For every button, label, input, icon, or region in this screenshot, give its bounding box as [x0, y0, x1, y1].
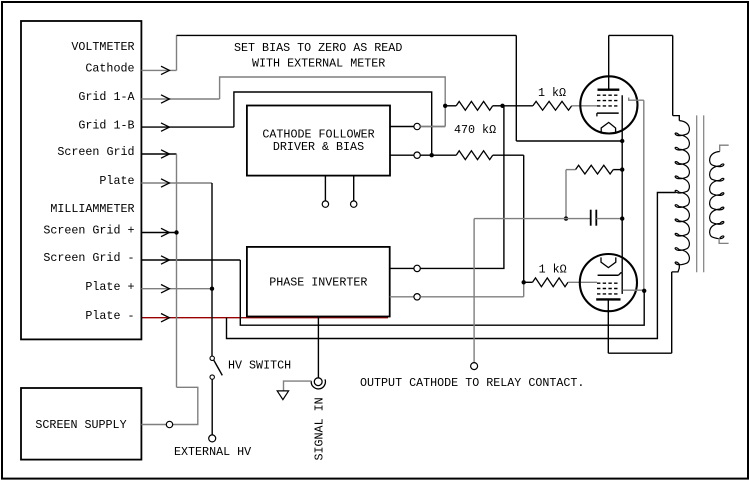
wire node riser [444, 106, 446, 127]
junction R5/C1 [564, 216, 568, 220]
wire cathode to tube V1 [516, 140, 622, 142]
svg-text:Cathode: Cathode [85, 62, 134, 76]
svg-text:470 kΩ: 470 kΩ [454, 123, 496, 137]
transformer T1 primary top lead [673, 116, 680, 121]
wire R5 right lead [613, 169, 622, 171]
wire R1 right lead [493, 105, 503, 107]
svg-text:SIGNAL IN: SIGNAL IN [312, 397, 326, 460]
resistor R5 cathode resistor V1 [576, 165, 614, 174]
wire inverter out2 row [420, 296, 523, 298]
terminal driver bottom 2 [351, 201, 357, 207]
wire C1 right lead [596, 218, 622, 220]
wire output cathode run [474, 218, 590, 220]
wire driver output 2 [390, 154, 414, 156]
transformer T1 primary bottom lead [672, 264, 680, 272]
wire screen grid drop [176, 154, 178, 387]
wire Grid 1-A row [141, 98, 219, 100]
arrowhead Plate + [161, 285, 169, 293]
wire plate drop to HV switch [211, 183, 213, 356]
svg-text:Screen Grid -: Screen Grid - [43, 251, 134, 265]
transformer T1 secondary top lead [720, 145, 729, 151]
svg-text:1 kΩ: 1 kΩ [538, 86, 566, 100]
svg-text:VOLTMETER: VOLTMETER [71, 40, 134, 54]
svg-text:WITH EXTERNAL METER: WITH EXTERNAL METER [252, 57, 385, 71]
wire V1 plate riser [608, 35, 610, 89]
wire V1 plate top run [609, 34, 673, 36]
svg-text:Grid 1-A: Grid 1-A [78, 90, 135, 104]
connector J1 SIGNAL IN jack [314, 378, 322, 386]
V1 grid lead right [629, 98, 644, 101]
junction plate + [210, 287, 214, 291]
wire R4 left lead [524, 281, 533, 283]
V2 heater [601, 257, 616, 267]
svg-text:Grid 1-B: Grid 1-B [78, 118, 134, 132]
wire drop to lower 1k node [523, 155, 525, 282]
transformer T1 secondary winding [710, 152, 724, 239]
V2 grid (dashed) [597, 282, 619, 284]
svg-text:DRIVER & BIAS: DRIVER & BIAS [273, 140, 364, 154]
wire out2 riser [523, 285, 525, 297]
V1 plate [598, 88, 620, 90]
wire node B to R2 [503, 105, 533, 107]
wire inverter out1 riser to node B [420, 106, 504, 269]
terminal screen supply output [166, 421, 172, 427]
wire Cathode row [141, 69, 176, 71]
wire jack shell to ground arrow [284, 381, 312, 391]
svg-text:MILLIAMMETER: MILLIAMMETER [50, 202, 134, 216]
V1 grid (dashed) [597, 94, 617, 96]
wire Plate row [141, 182, 212, 184]
svg-text:PHASE INVERTER: PHASE INVERTER [269, 275, 367, 289]
arrowhead Grid 1-A [161, 95, 169, 103]
capacitor C1 [590, 210, 592, 226]
svg-text:OUTPUT CATHODE TO RELAY CONTAC: OUTPUT CATHODE TO RELAY CONTACT. [360, 376, 584, 390]
wire V1 cathode drop [621, 95, 623, 273]
transformer T1 primary winding [675, 121, 689, 265]
wire driver bottom terminal 2 [353, 176, 355, 201]
wire output2 row [420, 154, 456, 156]
resistor R1 (left of 1k, upper row) [456, 101, 493, 110]
meter selector box (VOLTMETER / MILLIAMMETER) [21, 21, 141, 339]
svg-text:1 kΩ: 1 kΩ [539, 263, 567, 277]
terminal driver output 2 [414, 152, 420, 158]
svg-text:HV SWITCH: HV SWITCH [228, 358, 291, 372]
svg-text:Plate: Plate [99, 174, 134, 188]
wire to screen supply [141, 387, 197, 424]
SCREEN SUPPLY box [21, 388, 141, 460]
ground arrow (signal ground) [277, 391, 288, 400]
wire Plate- (red) from meter box to phase inverter corner [141, 317, 388, 319]
PHASE INVERTER box [247, 247, 390, 317]
wire R4 to V2 grid [568, 281, 597, 283]
junction cathode/meter [620, 139, 624, 143]
CATHODE FOLLOWER DRIVER & BIAS box [247, 106, 390, 176]
svg-text:Screen Grid +: Screen Grid + [43, 224, 134, 238]
vacuum tube V1 envelope [580, 76, 637, 133]
terminal output cathode [471, 363, 478, 370]
arrowhead Plate [161, 179, 169, 187]
terminal driver bottom 1 [322, 201, 328, 207]
wire V2 cathode stub [621, 273, 623, 294]
arrowhead Screen Grid + [161, 228, 169, 236]
wire output1 to node [420, 126, 445, 128]
terminal inverter output 1 [414, 265, 420, 271]
arrowhead Screen Grid [161, 150, 169, 158]
wire inverter output 2 [390, 296, 414, 298]
svg-text:Screen Grid: Screen Grid [57, 145, 134, 159]
junction cathode/R5 [620, 167, 624, 171]
svg-text:EXTERNAL HV: EXTERNAL HV [174, 445, 251, 459]
wire Screen Grid - run to V2 grid [240, 260, 644, 325]
terminal inverter output 2 [414, 294, 420, 300]
wire Screen Grid - row [141, 259, 240, 261]
switch blade [214, 360, 222, 375]
junction node A [443, 104, 447, 108]
wire R2 to V1 grid [572, 105, 597, 107]
arrowhead Cathode [161, 66, 169, 74]
wire transformer primary top drop [672, 35, 674, 115]
wire cathode riser [176, 35, 178, 70]
wire V2 plate bottom run [608, 352, 671, 354]
arrowhead Screen Grid - [161, 256, 169, 264]
wire R5 left lead [566, 169, 576, 171]
switch contact upper [210, 356, 214, 360]
switch contact lower [210, 375, 214, 379]
V1 cathode [597, 112, 619, 114]
V1 heater [601, 122, 615, 133]
wire Grid 1-B row [141, 126, 234, 128]
wire to external HV terminal [211, 379, 213, 435]
wire R3 right lead [493, 154, 524, 156]
V2 grid lead right [623, 289, 645, 291]
resistor R4 1 kOhm grid stopper V2 [533, 278, 569, 287]
wire Screen Grid row [141, 153, 176, 155]
V2 plate [596, 298, 620, 300]
wire inverter output 1 [390, 267, 414, 269]
transformer T1 secondary bottom lead [719, 238, 729, 243]
wire phase inverter input drop [317, 317, 319, 378]
transformer T1 core [696, 115, 698, 272]
wire Grid 1-B run [234, 92, 432, 155]
arrowhead Grid 1-B [161, 123, 169, 131]
wire to driver output 1 [420, 126, 445, 128]
svg-text:Plate +: Plate + [85, 280, 134, 294]
terminal EXTERNAL HV [209, 435, 216, 442]
junction lower 1k node [522, 280, 526, 284]
wire Plate + row [141, 288, 212, 290]
vacuum tube V2 envelope [580, 254, 637, 311]
wire V1 grid cap drop [643, 100, 645, 291]
svg-text:Plate -: Plate - [85, 309, 134, 323]
wire driver bottom terminal 1 [324, 176, 326, 201]
wire R5 left drop [565, 170, 567, 219]
wire cathode drop [515, 35, 517, 141]
junction screen grid + [174, 230, 178, 234]
wire Plate - to transformer center tap [227, 193, 676, 339]
wire driver output 1 [390, 126, 414, 128]
wire top cathode run [177, 34, 517, 36]
wire transformer primary bottom riser [671, 272, 673, 353]
V2 cathode [598, 274, 619, 276]
wire output cathode drop [473, 219, 475, 363]
wire Grid 1-A run [220, 77, 446, 127]
junction C1/cathode [620, 216, 624, 220]
junction grid 1-B node [430, 153, 434, 157]
terminal driver output 1 [414, 123, 420, 129]
wire Screen Grid + row [141, 232, 176, 234]
resistor R3 470 kOhm [456, 151, 493, 160]
wire R1 left lead [445, 105, 456, 107]
junction node B [500, 104, 504, 108]
svg-text:SCREEN SUPPLY: SCREEN SUPPLY [35, 418, 126, 432]
junction V2 grid [642, 289, 646, 293]
wire V2 plate drop [607, 299, 609, 353]
svg-text:SET BIAS TO ZERO AS READ: SET BIAS TO ZERO AS READ [234, 41, 402, 55]
resistor R2 1 kOhm grid stopper V1 [533, 101, 572, 110]
arrowhead Plate - [161, 314, 169, 322]
